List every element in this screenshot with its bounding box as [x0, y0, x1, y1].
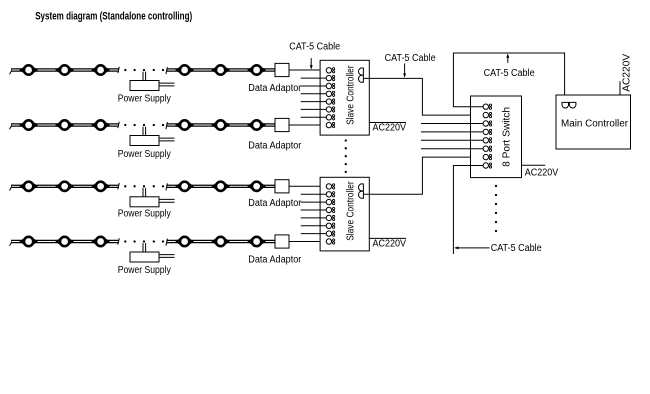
- connector switch port 1: [483, 104, 492, 109]
- wire DA3 to controller: [289, 185, 326, 187]
- LED pixel: [91, 182, 110, 191]
- connector U1 port 4: [326, 91, 335, 96]
- LED pixel: [211, 65, 230, 74]
- svg-text:Main Controller: Main Controller: [561, 118, 629, 129]
- wire DA1 to controller: [289, 69, 326, 71]
- 8 port switch box: [471, 96, 522, 178]
- LED pixel: [19, 120, 38, 129]
- wire stub U2 port 6: [301, 225, 327, 227]
- ellipsis more switches: [495, 185, 497, 232]
- LED pixel: [91, 65, 110, 74]
- LED pixel: [211, 237, 230, 246]
- wire stub U1 port 6: [301, 108, 327, 110]
- LED pixel: [211, 182, 230, 191]
- wire stub U2 port 3: [301, 201, 327, 203]
- wire stub U1 port 5: [301, 101, 327, 103]
- wire LED string 3 segment B: [166, 183, 275, 190]
- power supply PS2: [130, 127, 175, 146]
- wire stub U1 port 7: [301, 116, 327, 118]
- svg-text:AC220V: AC220V: [525, 167, 559, 178]
- svg-text:CAT-5 Cable: CAT-5 Cable: [385, 53, 436, 64]
- data adaptor DA1: [275, 63, 289, 76]
- LED pixel: [175, 182, 194, 191]
- wire stub U2 port 2: [301, 193, 327, 195]
- svg-text:AC220V: AC220V: [373, 239, 407, 250]
- connector U2 output jack: [359, 184, 364, 199]
- connector U2 port 6: [326, 223, 335, 228]
- svg-text:Power Supply: Power Supply: [118, 209, 171, 220]
- connector U1 output jack: [359, 68, 364, 83]
- connector U2 port 5: [326, 215, 335, 220]
- svg-text:System diagram (Standalone con: System diagram (Standalone controlling): [35, 11, 192, 23]
- ellipsis more slave controllers: [345, 139, 347, 173]
- slave controller U2 box: [320, 177, 369, 251]
- connector main controller jack: [562, 102, 577, 108]
- connector U2 port 3: [326, 199, 335, 204]
- LED pixel: [55, 65, 74, 74]
- connector U2 port 8: [326, 239, 335, 244]
- svg-text:CAT-5 Cable: CAT-5 Cable: [484, 68, 535, 79]
- wire DA4 to controller: [289, 241, 326, 243]
- LED pixel: [55, 120, 74, 129]
- svg-text:Power Supply: Power Supply: [118, 94, 171, 105]
- power supply PS3: [130, 188, 175, 207]
- arrow CAT-5 4: [454, 246, 489, 249]
- wire LED string 4 segment B: [166, 239, 275, 246]
- arrow CAT-5 2: [403, 64, 406, 78]
- svg-text:Data Adaptor: Data Adaptor: [248, 141, 302, 152]
- LED pixel: [175, 65, 194, 74]
- svg-text:CAT-5 Cable: CAT-5 Cable: [491, 243, 542, 254]
- LED pixel: [55, 182, 74, 191]
- wire AC power stub switch: [522, 164, 546, 166]
- connector U1 port 6: [326, 107, 335, 112]
- LED pixel: [175, 120, 194, 129]
- wire stub U1 port 4: [301, 93, 327, 95]
- svg-text:Power Supply: Power Supply: [118, 265, 171, 276]
- LED pixel: [19, 182, 38, 191]
- wire stub U2 port 7: [301, 233, 327, 235]
- arrow CAT-5 3: [506, 53, 509, 62]
- wire stub switch port 4: [421, 131, 483, 133]
- LED pixel: [211, 120, 230, 129]
- svg-text:AC220V: AC220V: [622, 54, 633, 92]
- svg-text:CAT-5 Cable: CAT-5 Cable: [289, 42, 340, 53]
- wire break dots string 2: [124, 124, 164, 126]
- wire break dots string 3: [124, 185, 164, 187]
- svg-text:Data Adaptor: Data Adaptor: [248, 198, 302, 209]
- wire stub U2 port 5: [301, 217, 327, 219]
- svg-text:AC220V: AC220V: [373, 123, 407, 134]
- connector switch port 6: [483, 146, 492, 151]
- connector U2 port 1: [326, 184, 335, 189]
- wire U1 output to switch port 2: [363, 78, 483, 115]
- arrow CAT-5 1: [310, 58, 313, 69]
- svg-text:Data Adaptor: Data Adaptor: [248, 255, 302, 266]
- wire U2 output to switch port 7: [363, 157, 483, 194]
- LED pixel: [247, 120, 266, 129]
- wire AC power stub U1: [370, 122, 407, 124]
- connector switch port 4: [483, 129, 492, 134]
- wire LED string 2 segment B: [166, 122, 275, 129]
- connector U1 port 1: [326, 68, 335, 73]
- LED pixel: [91, 237, 110, 246]
- LED pixel: [175, 237, 194, 246]
- LED pixel: [19, 237, 38, 246]
- wire LED string 2 segment A: [10, 122, 120, 130]
- svg-text:Power Supply: Power Supply: [118, 149, 171, 160]
- connector U1 port 8: [326, 122, 335, 127]
- svg-text:Data Adaptor: Data Adaptor: [248, 83, 302, 94]
- wire stub U2 port 4: [301, 209, 327, 211]
- wire switch port 8 trunk down: [453, 166, 483, 255]
- LED pixel: [19, 65, 38, 74]
- data adaptor DA4: [275, 235, 289, 248]
- data adaptor DA2: [275, 118, 289, 131]
- wire LED string 4 segment A: [10, 238, 120, 246]
- connector switch port 7: [483, 154, 492, 159]
- wire stub switch port 3: [421, 123, 483, 125]
- wire AC power stub U2: [370, 237, 407, 239]
- wire LED string 3 segment A: [10, 183, 120, 191]
- power supply PS4: [130, 243, 175, 262]
- connector U1 port 3: [326, 83, 335, 88]
- svg-text:8 Port Switch: 8 Port Switch: [501, 107, 512, 167]
- LED pixel: [247, 65, 266, 74]
- wire main controller to switch port 1: [453, 53, 564, 107]
- wire stub switch port 5: [421, 139, 483, 141]
- slave controller U1 box: [320, 60, 369, 135]
- wire DA2 to controller: [289, 124, 326, 126]
- svg-text:Slave Controller: Slave Controller: [345, 65, 356, 125]
- connector U2 port 4: [326, 207, 335, 212]
- connector U2 port 2: [326, 192, 335, 197]
- connector U1 port 7: [326, 115, 335, 120]
- wire LED string 1 segment B: [166, 67, 275, 74]
- main controller box: [556, 95, 631, 149]
- connector switch port 3: [483, 121, 492, 126]
- connector U2 port 7: [326, 231, 335, 236]
- wire stub U1 port 2: [301, 77, 327, 79]
- LED pixel: [247, 182, 266, 191]
- wire AC power stub main controller: [619, 81, 621, 95]
- power supply PS1: [130, 72, 175, 91]
- LED pixel: [247, 237, 266, 246]
- connector U1 port 5: [326, 99, 335, 104]
- wire stub switch port 6: [421, 148, 483, 150]
- connector U1 port 2: [326, 75, 335, 80]
- connector switch port 2: [483, 112, 492, 117]
- LED pixel: [91, 120, 110, 129]
- wire break dots string 4: [124, 240, 164, 242]
- connector switch port 8: [483, 163, 492, 168]
- svg-text:Slave Controller: Slave Controller: [345, 181, 356, 241]
- LED pixel: [55, 237, 74, 246]
- connector switch port 5: [483, 138, 492, 143]
- wire LED string 1 segment A: [10, 67, 120, 75]
- wire stub U1 port 3: [301, 85, 327, 87]
- data adaptor DA3: [275, 180, 289, 193]
- wire break dots string 1: [124, 69, 164, 71]
